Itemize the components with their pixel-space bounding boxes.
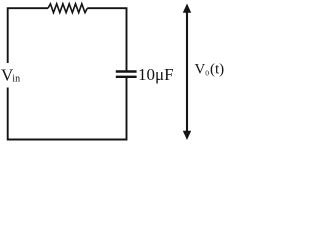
capacitor C1 bottom plate: [116, 76, 137, 78]
wire top-left segment: [8, 8, 48, 63]
capacitor C1 top plate: [116, 70, 137, 72]
arrowhead bottom: [183, 131, 191, 140]
svg-text:in: in: [12, 74, 20, 85]
arrow Vo(t) shaft: [186, 11, 188, 134]
svg-text:(t): (t): [210, 62, 224, 78]
svg-text:V: V: [195, 62, 206, 78]
svg-text:0: 0: [205, 69, 209, 78]
arrowhead top: [183, 4, 191, 13]
resistor R1: [48, 4, 87, 13]
svg-text:10μF: 10μF: [138, 65, 174, 84]
wire top-right segment to capacitor: [87, 8, 126, 70]
wire bottom segment from capacitor: [8, 78, 127, 140]
